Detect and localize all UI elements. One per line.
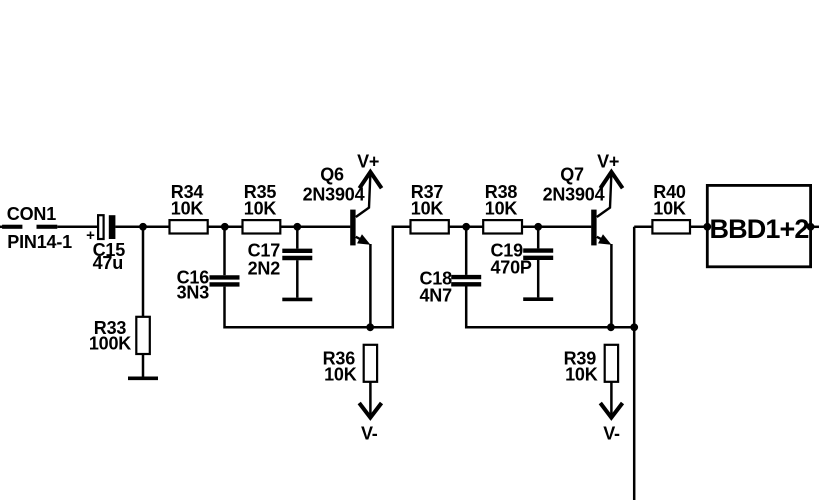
label C16 3N3 [177,267,210,302]
svg-text:V-: V- [361,424,378,444]
svg-text:2N3904: 2N3904 [543,184,605,204]
V- arrow (R36) [359,403,381,418]
resistor R40 [652,220,690,233]
resistor R33 [136,317,150,354]
wire R33 to ground [142,354,145,377]
capacitor C18 [451,227,481,284]
resistor R37 [411,220,449,233]
connector CON1 symbol [0,225,57,229]
wire R39 to V- arrow [610,382,613,415]
svg-text:100K: 100K [89,334,131,354]
ground (C19) [523,297,553,301]
label R35 10K [244,182,277,219]
label C17 2N2 [248,240,281,278]
V+ arrow (Q6) [359,172,381,188]
wire connector to C15 [57,226,97,229]
block BBD1+2 [707,185,810,266]
wire C15 to R34 [115,226,169,229]
svg-text:BBD1+2: BBD1+2 [710,214,809,244]
wire output column vertical [633,227,636,500]
ground (R33) [128,376,158,380]
label R36 10K [323,348,357,384]
node junction R37/R38/C18 [462,223,470,231]
svg-text:V-: V- [603,424,620,444]
label R33 100K [89,318,131,354]
svg-text:10K: 10K [653,199,686,219]
node junction at C15/R33 [139,223,147,231]
capacitor C16 [210,227,240,285]
transistor Q6 emitter [356,234,371,244]
svg-text:10K: 10K [565,365,598,385]
label R34 10K [171,182,204,219]
label C18 4N7 [420,269,453,306]
ground (C17) [282,298,312,302]
svg-text:Q6: Q6 [320,164,344,184]
transistor Q7 base bar [591,210,596,246]
wire R36 to V- arrow [369,382,372,415]
svg-text:4N7: 4N7 [420,285,453,305]
wire corner to R40 [634,226,652,229]
svg-text:2N3904: 2N3904 [303,184,365,204]
node junction R38/C19 [534,223,542,231]
label R38 10K [485,182,518,219]
svg-text:Q7: Q7 [560,164,584,184]
node junction rail/output column [630,323,638,331]
capacitor C17 [282,227,312,298]
node junction box input [703,223,711,231]
wire feedback rail (Q7 section) [466,287,634,328]
wire R37 to R38 [449,226,484,229]
svg-text:3N3: 3N3 [177,283,210,303]
svg-text:V+: V+ [357,152,379,172]
wire R34 to R35 [208,226,243,229]
svg-text:10K: 10K [411,199,444,219]
resistor R39 [605,345,618,382]
wire R38 to Q7 base [522,226,592,229]
capacitor C15 [86,215,115,244]
svg-text:10K: 10K [244,199,277,219]
svg-text:470P: 470P [491,257,532,277]
V- arrow (R39) [600,403,622,418]
wire box output to edge [811,226,819,229]
capacitor C19 [523,227,553,298]
label C15 47u [93,240,126,273]
resistor R35 [243,220,281,233]
wire Q7 emitter down [610,244,613,327]
svg-text:10K: 10K [171,199,204,219]
label R37 10K [411,182,444,219]
label R40 10K [653,182,686,219]
svg-text:C17: C17 [248,240,281,260]
svg-text:CON1: CON1 [7,204,56,224]
node junction emitter/R36/rail [366,323,374,331]
wire R33 branch [142,227,145,317]
transistor Q6 collector wire [356,173,371,217]
transistor Q7 emitter [597,234,612,244]
wire feedback rail (Q6 section) [225,227,411,327]
svg-text:PIN14-1: PIN14-1 [7,232,72,252]
svg-text:47u: 47u [93,253,123,273]
transistor Q6 base bar [350,210,355,246]
svg-text:2N2: 2N2 [248,259,281,279]
svg-text:V+: V+ [597,152,619,172]
V+ arrow (Q7) [600,172,622,188]
label C19 470P [491,240,532,277]
svg-text:10K: 10K [485,199,518,219]
svg-text:10K: 10K [324,365,357,385]
transistor Q7 collector wire [597,173,612,217]
wire R35 to Q6 base [280,226,350,229]
node junction box output [807,223,815,231]
node junction emitter/R39/rail [607,323,615,331]
label R39 10K [564,348,598,384]
resistor R36 [364,345,377,382]
node junction R34/R35/C16 [221,223,229,231]
wire Q6 emitter down [369,244,372,327]
resistor R38 [483,220,522,233]
node junction R35/C17 [293,223,301,231]
resistor R34 [170,220,208,233]
wire R40 to BBD box [690,226,707,229]
